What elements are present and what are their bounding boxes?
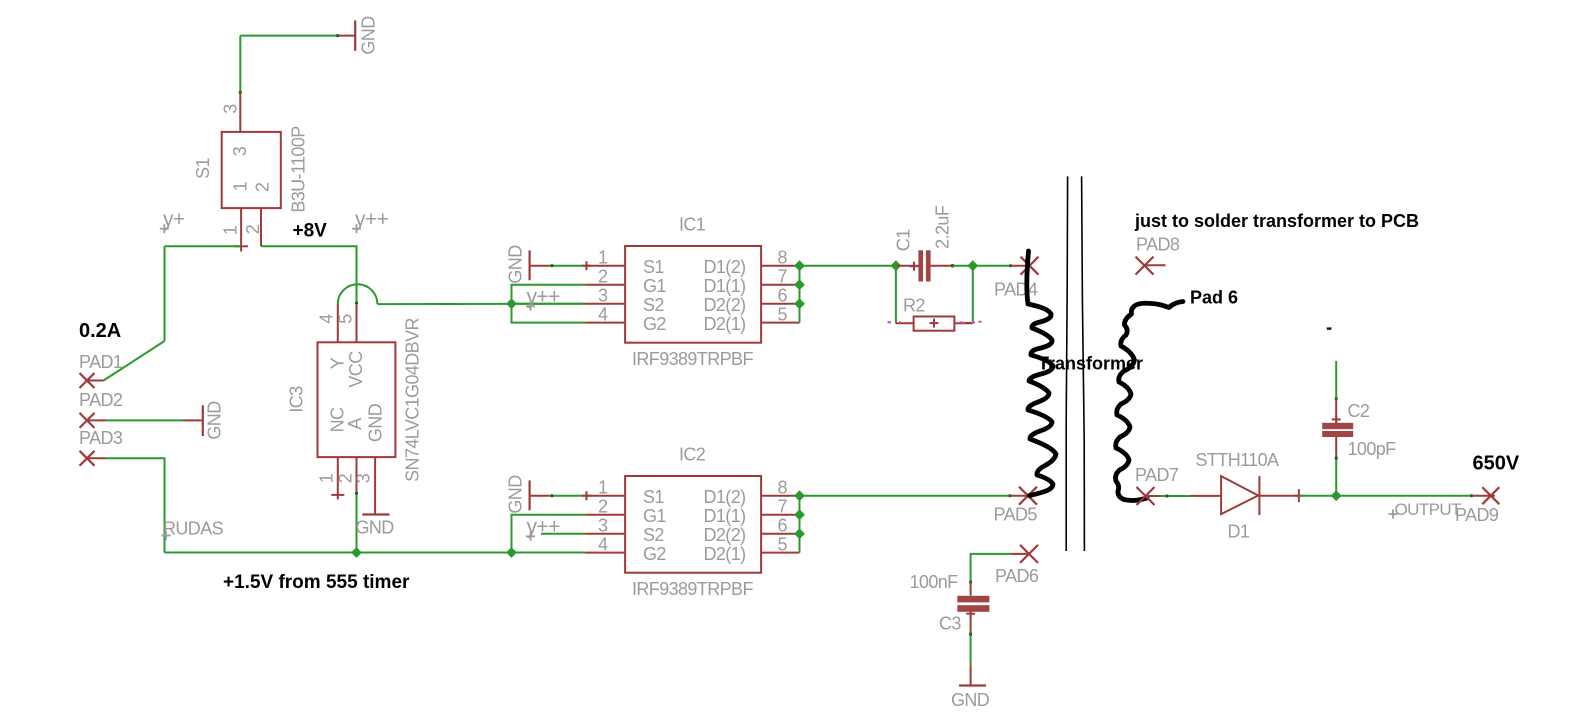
transformer secondary winding (hand drawn) [1115, 302, 1183, 501]
svg-text:IC2: IC2 [679, 445, 706, 465]
svg-text:D2(1): D2(1) [704, 544, 746, 564]
wire IC1 drain bus vertical [799, 266, 801, 323]
capacitor C3 plates [957, 596, 989, 603]
wire IC2 drains to PAD5 [800, 495, 1011, 497]
pad PAD3 cross [80, 451, 95, 466]
net label y++ origin cross [352, 224, 361, 233]
pad PAD8 pin [1145, 264, 1166, 266]
wire junction dot [951, 264, 955, 268]
wire diagonal to PAD1 [104, 341, 165, 381]
junction IC2 pin8 [794, 490, 805, 501]
svg-text:650V: 650V [1473, 453, 1520, 475]
IC1 pin 5 stub [761, 322, 799, 324]
svg-text:1: 1 [221, 225, 241, 235]
wire IC1 G1 tie [512, 285, 586, 323]
svg-text:D1(2): D1(2) [704, 257, 746, 277]
junction at IC2 G wires [506, 547, 517, 558]
pad PAD9 pin [1472, 495, 1495, 497]
wire PAD3 down to bottom rail [106, 458, 165, 552]
svg-text:Pad 6: Pad 6 [1190, 288, 1238, 308]
svg-text:D2(1): D2(1) [704, 314, 746, 334]
IC1 pin 7 stub [761, 284, 799, 286]
pad PAD1 cross [80, 373, 95, 388]
svg-text:PAD5: PAD5 [994, 505, 1038, 525]
pad PAD2 cross [80, 413, 95, 428]
svg-text:VCC: VCC [346, 351, 366, 388]
capacitor C1 right pin [931, 265, 953, 267]
svg-text:C3: C3 [939, 614, 961, 634]
svg-text:D2(2): D2(2) [704, 525, 746, 545]
svg-text:PAD1: PAD1 [79, 352, 123, 372]
wire IC1 GND to pin1 [550, 265, 586, 267]
IC1 pin 1 stub [586, 265, 626, 267]
svg-text:5: 5 [778, 535, 788, 555]
pad PAD2 pin [87, 419, 106, 421]
svg-text:0.2A: 0.2A [79, 320, 121, 342]
svg-text:2: 2 [598, 497, 608, 517]
ground symbol GND (IC1) [528, 250, 530, 280]
svg-text:GND: GND [506, 245, 526, 284]
wire arc hop over VCC wire [338, 284, 378, 304]
svg-text:4: 4 [598, 305, 608, 325]
svg-text:G1: G1 [643, 506, 666, 526]
wire IC2 GND to pin1 [550, 495, 586, 497]
wire PAD7 to D1 [1159, 495, 1190, 497]
IC1 pin 2 stub [586, 284, 626, 286]
svg-text:3: 3 [230, 146, 250, 156]
svg-text:PAD6: PAD6 [995, 566, 1039, 586]
svg-text:+1.5V from 555 timer: +1.5V from 555 timer [223, 572, 410, 593]
junction dot at IC3 pin5 [355, 301, 358, 304]
ground symbol GND (top) [354, 20, 356, 50]
capacitor C2 plates [1322, 423, 1353, 429]
stray ink mark [1327, 327, 1332, 329]
diode D1 pin end cross [1294, 489, 1303, 502]
wire junction dot [550, 494, 553, 497]
transformer primary winding (hand drawn) [1027, 251, 1056, 496]
resistor R2 origin cross [930, 319, 939, 328]
capacitor C1 origin cross [910, 262, 919, 271]
IC2 pin 1 stub [586, 495, 626, 497]
svg-text:100pF: 100pF [1348, 439, 1397, 459]
IC2 pin 3 stub [586, 533, 626, 535]
wire C2 top stub [1335, 361, 1337, 399]
wire junction dot [336, 34, 339, 37]
svg-text:GND: GND [359, 16, 379, 55]
svg-text:100nF: 100nF [910, 572, 959, 592]
resistor R2 body [914, 317, 955, 331]
svg-text:SN74LVC1G04DBVR: SN74LVC1G04DBVR [403, 318, 423, 482]
pad PAD5 cross [1019, 487, 1037, 505]
ground symbol GND (IC2) [528, 480, 530, 510]
junction C1 right [967, 260, 978, 271]
svg-text:S1: S1 [643, 487, 664, 507]
net label y++ origin cross (IC1) [526, 302, 535, 311]
svg-text:1: 1 [317, 473, 337, 483]
pad PAD6 cross [1020, 545, 1038, 563]
wire junction dot [1165, 494, 1168, 497]
wire junction dot [969, 633, 972, 636]
wire junction dot [1009, 264, 1012, 267]
junction C2 node [1331, 490, 1342, 501]
IC2 pin 5 stub [761, 552, 799, 554]
wire IC1 S2 row [512, 303, 586, 305]
IC2 body IRF9389TRPBF [625, 476, 761, 573]
R2 smashed text marks left [888, 321, 902, 323]
svg-text:IRF9389TRPBF: IRF9389TRPBF [632, 349, 753, 369]
svg-text:A: A [345, 418, 365, 430]
IC1 pin 6 stub [761, 303, 799, 305]
svg-text:4: 4 [598, 535, 608, 555]
junction C1 left [891, 260, 902, 271]
svg-text:D2(2): D2(2) [704, 295, 746, 315]
wire net y+ horizontal [165, 245, 241, 247]
svg-text:y++: y++ [355, 208, 389, 231]
svg-text:2: 2 [243, 224, 263, 234]
svg-text:G2: G2 [643, 544, 666, 564]
svg-text:D1(2): D1(2) [704, 487, 746, 507]
svg-text:+8V: +8V [293, 221, 328, 242]
pin 1 end cross (IC2) [582, 491, 591, 500]
capacitor C3 top pin [970, 582, 972, 595]
svg-text:PAD3: PAD3 [79, 428, 123, 448]
svg-text:S2: S2 [643, 525, 664, 545]
S1 pin 1 end cross [234, 245, 248, 247]
svg-text:3: 3 [354, 473, 374, 483]
junction at IC3 pin2 [351, 547, 362, 558]
R2 dark dash right [965, 322, 971, 324]
svg-text:2: 2 [336, 473, 356, 483]
svg-text:G1: G1 [643, 276, 666, 296]
S1 pin 1 stub [240, 208, 242, 251]
IC3 pin 3 stub (GND) [374, 457, 376, 513]
svg-text:B3U-1100P: B3U-1100P [289, 126, 309, 213]
svg-text:S1: S1 [643, 257, 664, 277]
wire junction dot [969, 581, 972, 584]
svg-text:PAD4: PAD4 [994, 280, 1038, 300]
svg-text:2: 2 [253, 182, 273, 192]
wire net y+ vertical [164, 246, 166, 341]
resistor R2 right pin [954, 322, 972, 324]
svg-text:GND: GND [506, 475, 526, 514]
svg-text:3: 3 [598, 516, 608, 536]
wire junction dot [1335, 397, 1338, 400]
svg-text:y++: y++ [527, 516, 561, 539]
wire junction dot [1470, 494, 1473, 497]
R2 smashed text marks right [960, 321, 982, 324]
svg-text:5: 5 [778, 305, 788, 325]
IC2 pin 6 stub [761, 533, 799, 535]
wire to PAD4 [973, 265, 1011, 267]
pad PAD4 cross [1021, 257, 1039, 275]
svg-text:S1: S1 [193, 158, 213, 179]
transformer core line right [1082, 176, 1085, 551]
capacitor C1 plates [918, 250, 923, 281]
svg-text:D1(1): D1(1) [704, 506, 746, 526]
svg-text:6: 6 [778, 516, 788, 536]
svg-text:5: 5 [336, 314, 356, 324]
diode D1 anode pin [1190, 495, 1221, 497]
svg-text:G2: G2 [643, 314, 666, 334]
ground pin (C3) [970, 665, 972, 684]
pad PAD1 pin [87, 380, 104, 382]
IC3 pin 1 end cross [331, 494, 344, 496]
IC3 pin 4 stub [337, 304, 339, 342]
net label OUTPUT origin cross [1389, 510, 1398, 519]
diode D1 cathode bar [1258, 476, 1260, 515]
wire R2 right vertical [972, 266, 974, 324]
svg-text:1: 1 [598, 478, 608, 498]
svg-text:IC3: IC3 [287, 386, 307, 413]
svg-text:7: 7 [778, 267, 788, 287]
svg-text:1: 1 [598, 248, 608, 268]
svg-text:8: 8 [778, 248, 788, 268]
svg-text:GND: GND [356, 518, 395, 538]
IC1 pin 4 stub [586, 322, 626, 324]
capacitor C2 origin cross [1332, 415, 1341, 424]
wire IC2 G1 tie [512, 515, 586, 553]
transformer core line left [1066, 176, 1067, 551]
svg-text:RUDAS: RUDAS [163, 519, 224, 539]
diode D1 triangle [1221, 476, 1258, 514]
wire junction dot [1009, 494, 1012, 497]
IC1 pin 3 stub [586, 303, 626, 305]
junction IC2 pin6 [794, 528, 805, 539]
pad PAD3 pin [87, 457, 106, 459]
svg-text:2.2uF: 2.2uF [933, 205, 953, 249]
pad PAD5 pin [1010, 495, 1028, 497]
wire PAD6 to C3 [971, 554, 1011, 582]
svg-text:2: 2 [598, 267, 608, 287]
wire R2 left vertical [895, 266, 897, 324]
capacitor C3 bottom pin [970, 612, 972, 634]
svg-text:Y: Y [328, 357, 348, 369]
diode D1 cathode pin [1259, 495, 1299, 497]
switch S1 body B3U-1100P [222, 132, 281, 208]
svg-text:PAD7: PAD7 [1135, 465, 1179, 485]
svg-text:D1: D1 [1228, 522, 1250, 542]
ground GND pin (top) [338, 35, 355, 37]
ground symbol GND (PAD2) [202, 405, 204, 436]
wire D1 to PAD9 [1299, 495, 1472, 497]
IC3 pin 2 stub (A) [356, 457, 358, 493]
junction IC1 pin8 [794, 260, 805, 271]
wire IC3 Y output to IC1 [377, 303, 585, 305]
junction IC1 pin7 [794, 279, 805, 290]
svg-text:OUTPUT: OUTPUT [1395, 500, 1462, 519]
wire C2 to output node [1335, 458, 1337, 496]
svg-text:y+: y+ [163, 208, 185, 231]
IC1 pin 8 stub [761, 265, 799, 267]
svg-text:1: 1 [231, 181, 251, 191]
svg-text:D1(1): D1(1) [704, 276, 746, 296]
svg-text:8: 8 [778, 478, 788, 498]
junction IC1 gate node [506, 298, 517, 309]
wire junction dot [239, 91, 242, 94]
svg-text:3: 3 [221, 104, 241, 114]
pad PAD7 cross [1137, 487, 1155, 505]
S1 pin 2 stub [260, 208, 262, 246]
svg-text:6: 6 [778, 286, 788, 306]
IC2 pin 7 stub [761, 514, 799, 516]
capacitor C2 bottom pin [1335, 437, 1337, 458]
pad PAD8 cross [1136, 257, 1154, 275]
IC3 pin 1 stub (NC) [337, 457, 339, 499]
wire IC3 A to bottom rail [356, 493, 358, 552]
svg-text:just to solder transformer to: just to solder transformer to PCB [1134, 211, 1419, 231]
ground pin (IC2 GND) [531, 495, 550, 497]
svg-text:S2: S2 [643, 295, 664, 315]
wire junction dot [1335, 456, 1338, 459]
wire C1 to PAD4 node [953, 265, 973, 267]
net label y++ origin cross (IC2) [526, 532, 535, 541]
svg-text:GND: GND [951, 690, 990, 710]
net label RUDAS origin cross [162, 531, 171, 540]
svg-text:C2: C2 [1348, 401, 1370, 421]
S1 pin 3 stub [239, 93, 241, 132]
junction IC1 pin6 [794, 298, 805, 309]
junction IC2 pin7 [794, 509, 805, 520]
pad PAD9 cross [1482, 487, 1499, 504]
wire C3 to GND [970, 634, 972, 665]
wire PAD2 to GND [106, 419, 183, 421]
svg-text:IC1: IC1 [679, 215, 706, 235]
svg-text:3: 3 [598, 286, 608, 306]
svg-text:PAD9: PAD9 [1455, 505, 1499, 525]
svg-text:y++: y++ [527, 286, 561, 309]
IC2 pin 4 stub [586, 552, 626, 554]
wire bottom rail [165, 552, 586, 554]
svg-text:PAD8: PAD8 [1136, 235, 1180, 255]
pad PAD4 pin [1011, 265, 1030, 267]
svg-text:PAD2: PAD2 [79, 390, 123, 410]
pad PAD6 pin [1010, 553, 1029, 555]
ground GND pin (PAD2) [183, 419, 202, 421]
svg-text:C1: C1 [894, 229, 914, 251]
svg-text:4: 4 [317, 314, 337, 324]
wire IC2 S2 short [541, 533, 586, 535]
ground symbol GND (IC3) [362, 513, 389, 515]
svg-text:7: 7 [778, 497, 788, 517]
svg-text:GND: GND [205, 401, 225, 440]
wire junction dot [355, 492, 358, 495]
svg-text:R2: R2 [903, 296, 925, 316]
IC3 body SN74LVC1G04DBVR [318, 342, 396, 457]
wire IC2 drain bus vertical [799, 496, 801, 553]
svg-text:GND: GND [365, 403, 385, 442]
capacitor C1 left pin [896, 265, 919, 267]
ground pin (IC1 GND) [531, 265, 550, 267]
capacitor C3 origin cross [966, 609, 975, 618]
IC2 pin 2 stub [586, 514, 626, 516]
capacitor C2 top pin [1335, 399, 1337, 423]
svg-text:Transformer: Transformer [1038, 354, 1143, 374]
svg-text:IRF9389TRPBF: IRF9389TRPBF [632, 579, 753, 599]
wire vertical down to S1 pin 3 [239, 36, 241, 93]
svg-text:STTH110A: STTH110A [1196, 450, 1279, 470]
pad PAD7 pin [1146, 495, 1160, 497]
resistor R2 left pin [896, 322, 914, 324]
wire IC1 drains to C1 [800, 265, 896, 267]
net label y+ origin cross [160, 224, 169, 233]
IC1 body IRF9389TRPBF [625, 246, 761, 343]
IC2 pin 8 stub [761, 495, 799, 497]
pin 1 end cross (IC1) [582, 261, 591, 270]
wire net +8V horizontal [261, 246, 357, 304]
IC3 pin 5 stub [356, 304, 358, 342]
wire junction dot [550, 264, 553, 267]
wire GND-to-S1 top horizontal [240, 35, 337, 37]
ground symbol GND (C3) [959, 684, 986, 686]
